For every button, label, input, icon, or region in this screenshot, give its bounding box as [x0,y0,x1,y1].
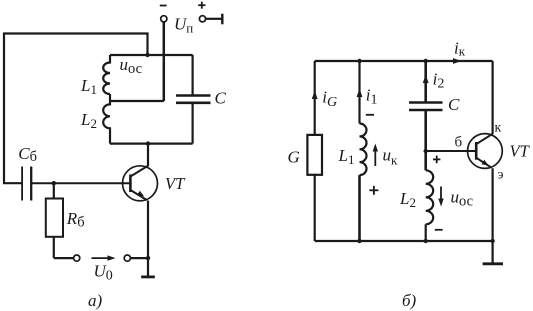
ground (circuit b) [483,262,503,265]
arrow uoc [440,187,442,202]
node dot bottom L2 [424,239,428,243]
arrow ik on top line [453,58,462,64]
wire: plus terminal stub [206,18,222,20]
capacitor C (b) [409,101,443,104]
transistor VT (circuit a) [123,166,158,201]
generator G box [307,135,322,175]
svg-text:C: C [215,89,227,108]
node dot top L1 [357,59,361,63]
terminal: minus supply circle [161,16,167,22]
terminal: plus supply circle [199,16,205,22]
label plus (L1 bottom) [369,189,378,191]
wire: emitter down [147,201,149,277]
wire: bottom line (b) [315,240,493,242]
terminal: U0 left circle [74,255,80,261]
inductor L2 (circuit a): 2 bumps bulging left [103,94,110,144]
wire: minus supply line (thick) [163,22,166,101]
wire: left feedback loop from tank top to Cб [4,34,148,184]
svg-text:а): а) [88,291,103,310]
wire: to emitter rail [130,257,148,259]
svg-text:VT: VT [165,174,186,193]
wire: base wire (b) [426,150,477,152]
wire: collector up (b) [492,61,494,134]
arrow U0 [92,257,110,259]
label minus (L2 bottom) [435,229,443,231]
inductor L1 (circuit a): 3 bumps bulging left [103,55,110,94]
inductor L1 (b): 4 bumps bulging right [360,124,367,176]
wire: base wire [31,182,130,184]
svg-text:C: C [448,95,460,114]
wire: cap to L2 junction (thick) [424,110,427,170]
node dot emitter/bottom line [490,239,494,243]
node: junction dot base tap [424,149,428,153]
node: junction dot base/Rb [52,181,56,185]
wire: tank top line [110,54,193,56]
svg-text:VT: VT [510,142,531,161]
arrow i1 [357,89,363,98]
label: minus sign [160,5,167,7]
svg-text:G: G [288,148,300,167]
resistor Rb [53,183,55,198]
wire: left branch with G [314,61,316,135]
label: plus sign [198,4,205,6]
arrow i2 [423,75,429,84]
wire: emitter down (b) [492,168,494,263]
terminal: U0 right circle [124,255,130,261]
node: junction dot emitter/U0 [146,256,150,260]
inductor L2 (b): 4 bumps bulging right [426,170,434,224]
node A: junction dot tank top / feedback [145,53,149,57]
label plus (L2 top) [433,158,440,160]
svg-text:э: э [498,168,504,183]
node dot bottom L1 [357,239,361,243]
label minus (L1 top) [366,114,374,116]
svg-text:б): б) [402,291,417,310]
node dot top branch3 [424,59,428,63]
arrow iG [312,91,318,100]
wire: L1 branch (b) [358,61,360,124]
wire: top line (b) [315,60,493,62]
wire: collector up to tank [147,144,149,166]
node: junction dot collector/tank [146,141,150,145]
svg-text:к: к [495,121,502,136]
ground (circuit a) [141,275,155,278]
arrow uk [374,149,376,166]
wire: coil tap to Vp minus [110,100,164,102]
capacitor Cb [21,167,23,201]
capacitor C (circuit a) [192,55,194,95]
transistor VT (circuit b) [468,134,503,169]
wire: tank bottom line [110,143,193,145]
wire: C/L2 branch top (thick) [424,61,427,102]
svg-text:б: б [455,135,463,151]
